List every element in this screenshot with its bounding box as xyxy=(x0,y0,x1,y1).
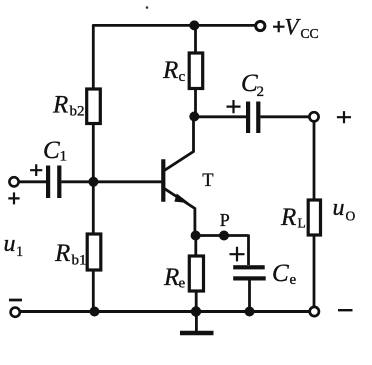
svg-text:c: c xyxy=(179,69,186,85)
label Rb2 xyxy=(52,92,85,120)
svg-text:R: R xyxy=(162,57,178,84)
wire output terminal to RL xyxy=(313,121,316,200)
resistor Rb1 xyxy=(87,234,101,270)
wire bottom rail xyxy=(20,310,309,313)
resistor Rb2 xyxy=(87,89,101,124)
svg-text:T: T xyxy=(202,171,213,191)
label C1 xyxy=(43,137,67,165)
label Ce xyxy=(272,260,297,288)
label C2 xyxy=(241,70,264,100)
node bottom rail left junction xyxy=(90,307,100,317)
label RL xyxy=(280,204,306,231)
terminal input xyxy=(9,177,18,186)
svg-text:C: C xyxy=(272,260,289,287)
resistor Rc xyxy=(189,53,203,89)
svg-text:e: e xyxy=(290,272,297,288)
wire left branch vertical xyxy=(92,24,95,311)
label input polarity + lower xyxy=(8,192,19,204)
resistor RL xyxy=(308,200,320,235)
label +Vcc xyxy=(273,14,319,41)
resistor Re xyxy=(189,256,203,291)
svg-text:C: C xyxy=(43,137,60,164)
svg-text:C: C xyxy=(241,70,258,97)
label Rb1 xyxy=(54,240,87,269)
node bottom rail emitter junction xyxy=(191,306,201,316)
node P xyxy=(219,231,229,241)
svg-text:b2: b2 xyxy=(70,104,85,120)
terminal output bottom xyxy=(310,307,319,316)
terminal output top xyxy=(309,112,318,121)
label C2 polarity + xyxy=(227,100,241,113)
svg-text:R: R xyxy=(163,264,179,291)
wire C1 to base node xyxy=(61,180,162,183)
svg-text:O: O xyxy=(346,209,356,224)
svg-text:u: u xyxy=(4,231,16,257)
node emitter junction xyxy=(191,231,201,241)
wire input terminal to C1 xyxy=(18,180,46,183)
wire Ce top lead xyxy=(247,235,250,266)
svg-text:2: 2 xyxy=(257,84,265,100)
svg-text:R: R xyxy=(280,204,296,231)
label uO xyxy=(333,195,356,224)
wire emitter node to Ce branch xyxy=(196,234,249,237)
label output polarity minus xyxy=(338,309,353,311)
svg-text:P: P xyxy=(220,210,230,230)
svg-text:u: u xyxy=(333,195,345,221)
node junction top rail xyxy=(189,20,199,30)
wire RL to output bottom terminal xyxy=(313,235,316,307)
svg-text:R: R xyxy=(54,240,70,267)
node collector junction xyxy=(189,112,199,122)
wire Re to bottom rail xyxy=(195,291,198,312)
svg-text:e: e xyxy=(179,276,186,292)
wire Ce bottom lead xyxy=(248,280,251,312)
ground xyxy=(180,312,214,334)
capacitor C1 xyxy=(46,166,61,199)
label Rc xyxy=(162,57,186,85)
svg-text:L: L xyxy=(298,216,306,231)
wire collector branch top (rail to Rc) xyxy=(194,25,197,56)
wire top supply rail xyxy=(93,24,255,27)
svg-text:1: 1 xyxy=(16,244,23,260)
label input polarity minus xyxy=(9,299,22,302)
label u1 xyxy=(4,231,24,260)
wire collector node to C2 xyxy=(194,115,246,118)
terminal bottom left xyxy=(11,308,20,317)
transistor T xyxy=(163,117,195,236)
label Re xyxy=(163,264,186,292)
label input polarity + upper xyxy=(30,164,42,176)
terminal +Vcc xyxy=(256,21,265,30)
label Ce polarity + xyxy=(230,247,245,262)
svg-text:R: R xyxy=(52,92,68,119)
svg-text:b1: b1 xyxy=(72,253,87,269)
svg-text:1: 1 xyxy=(60,149,68,165)
wire C2 to output terminal xyxy=(260,115,308,118)
wire Rc to collector node xyxy=(194,89,197,117)
node base junction xyxy=(88,177,98,187)
wire emitter node to Re xyxy=(194,236,197,257)
label output polarity + xyxy=(337,111,351,123)
capacitor Ce xyxy=(233,265,266,280)
speck artifact top xyxy=(146,6,149,9)
svg-text:CC: CC xyxy=(301,26,319,41)
capacitor C2 xyxy=(246,102,260,134)
node bottom rail Ce junction xyxy=(245,307,255,317)
